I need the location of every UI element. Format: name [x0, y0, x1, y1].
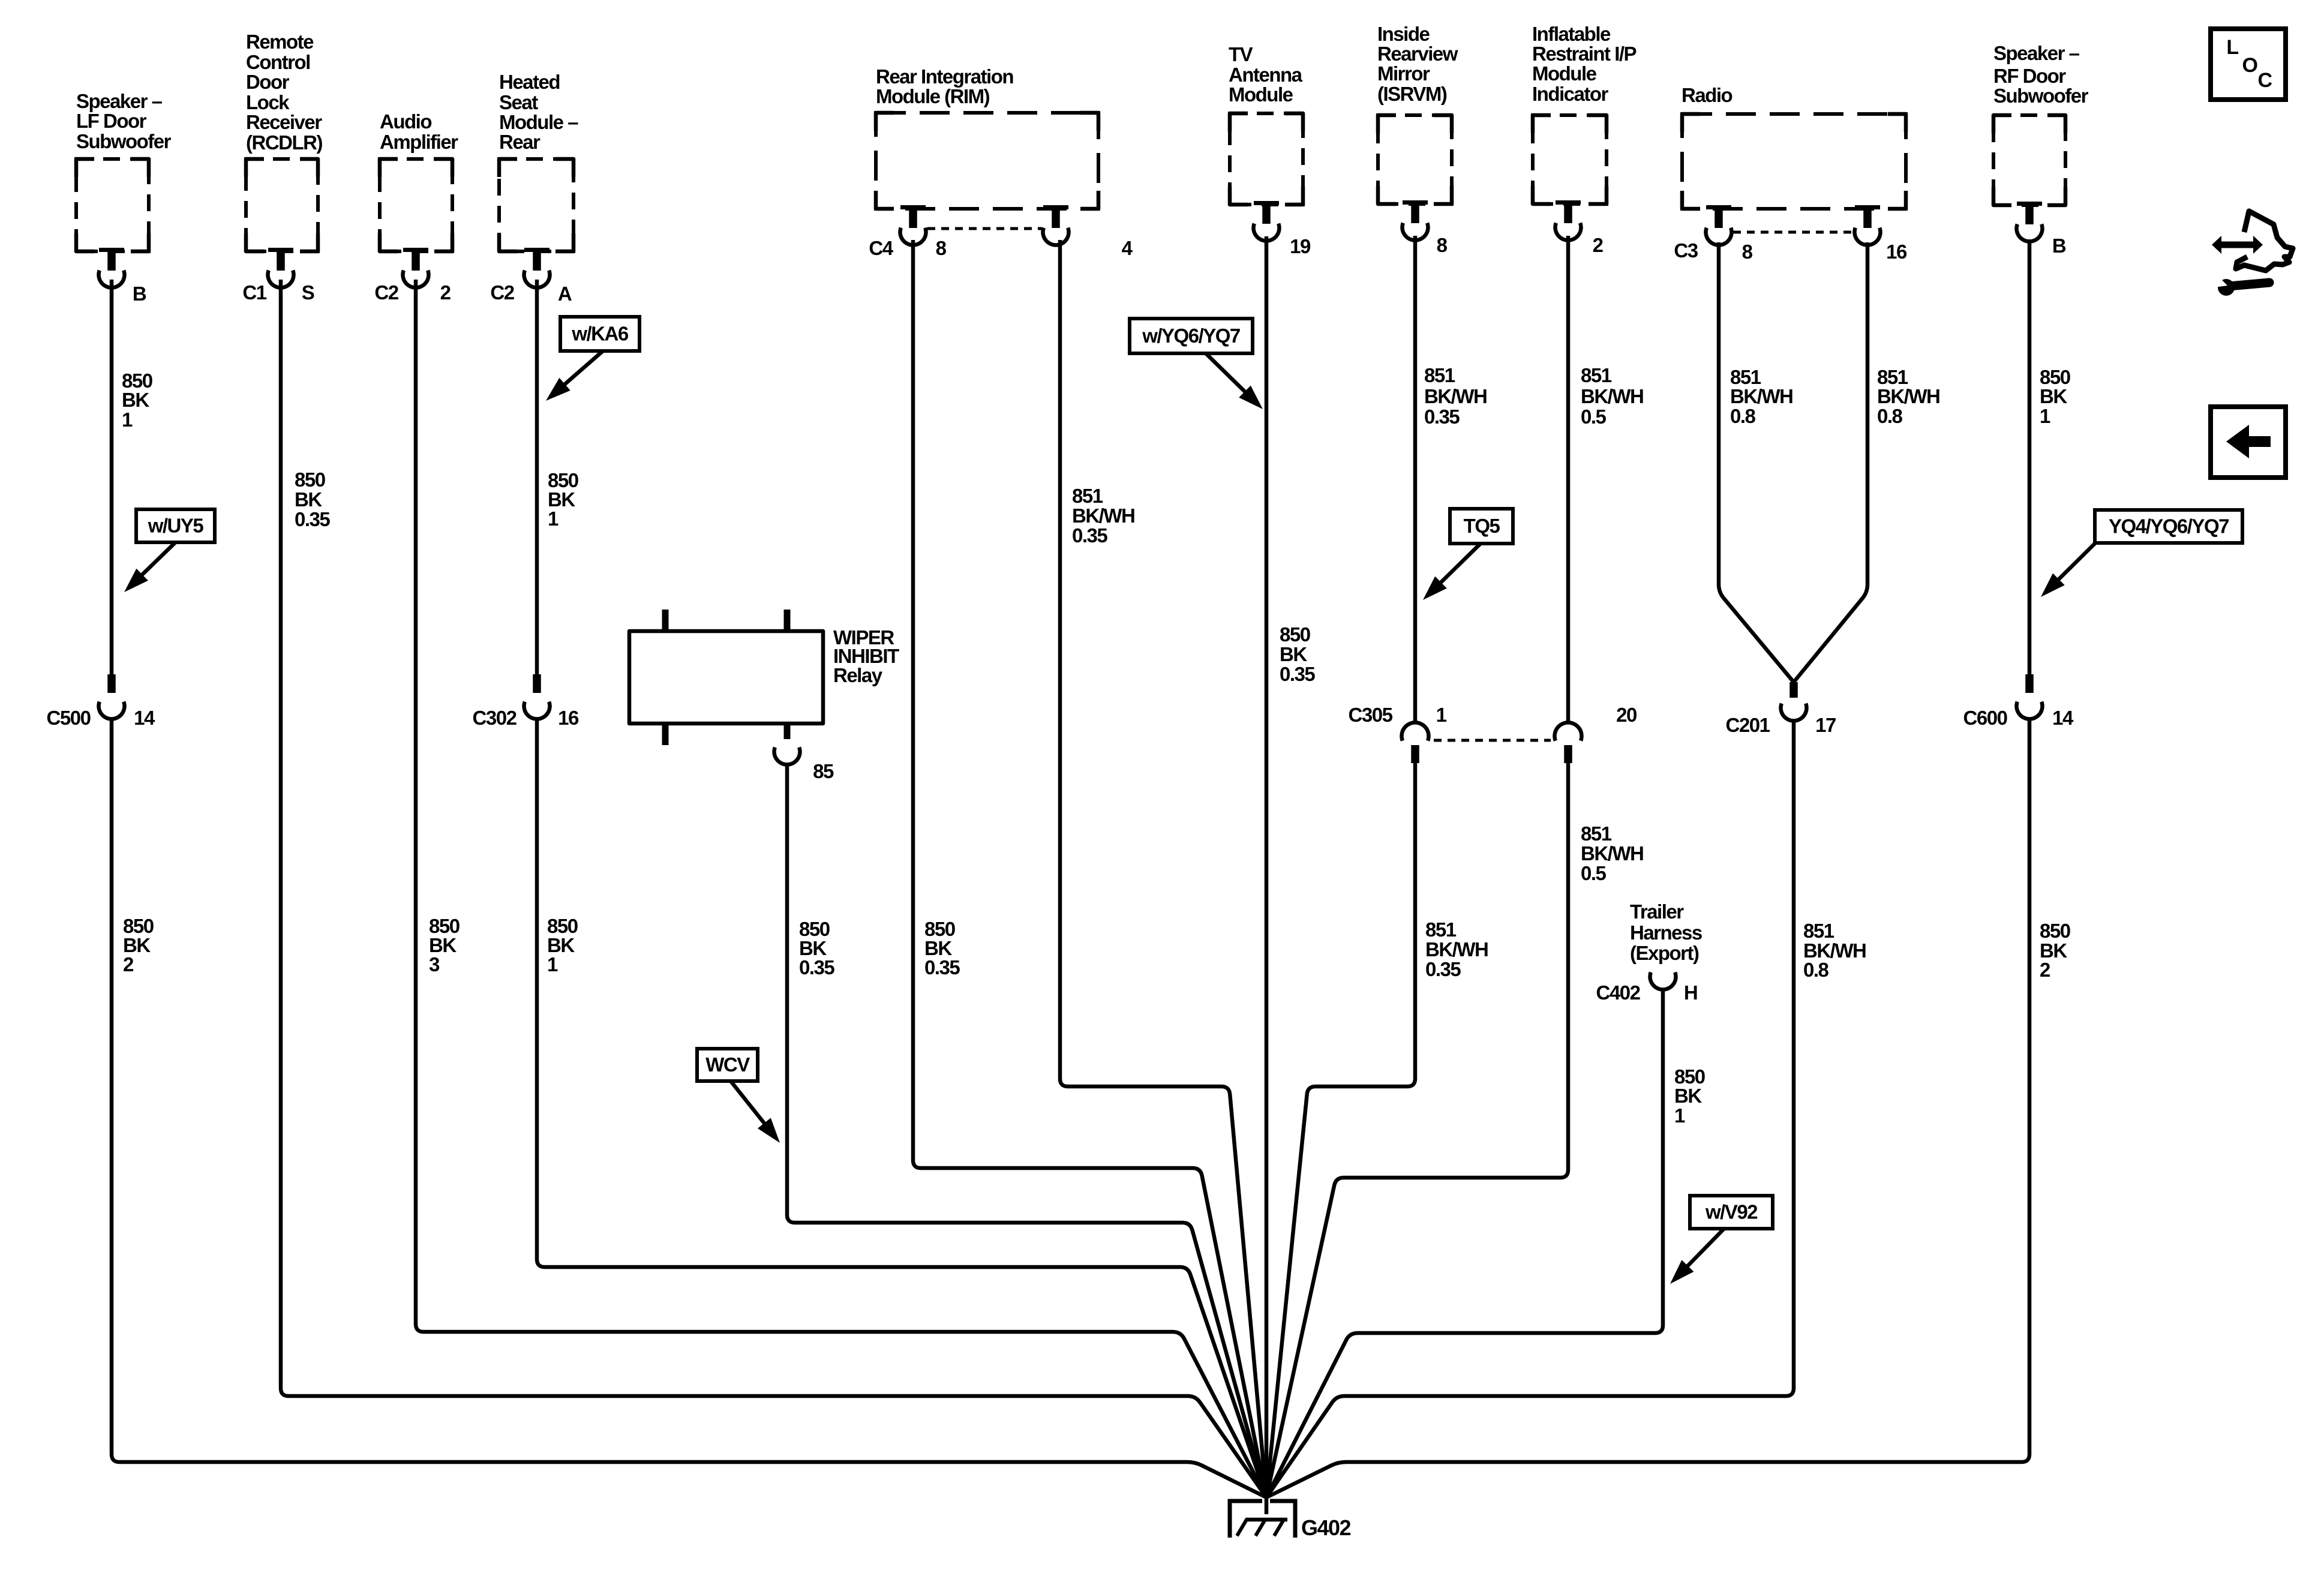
- svg-text:3: 3: [429, 953, 440, 975]
- svg-text:851: 851: [1072, 485, 1103, 507]
- svg-text:Subwoofer: Subwoofer: [1993, 85, 2089, 107]
- svg-text:WCV: WCV: [705, 1053, 750, 1076]
- svg-text:Module: Module: [1229, 83, 1293, 106]
- svg-text:1: 1: [1674, 1104, 1685, 1127]
- svg-text:Control: Control: [246, 51, 310, 73]
- svg-text:BK/WH: BK/WH: [1424, 385, 1487, 407]
- svg-text:B: B: [2052, 235, 2066, 257]
- svg-text:850: 850: [1280, 623, 1310, 646]
- svg-text:0.8: 0.8: [1877, 405, 1903, 427]
- svg-text:Amplifier: Amplifier: [380, 131, 458, 153]
- svg-text:1: 1: [547, 953, 558, 975]
- svg-text:0.35: 0.35: [1280, 663, 1315, 685]
- svg-text:A: A: [558, 283, 572, 305]
- svg-text:C402: C402: [1596, 981, 1641, 1004]
- svg-text:C2: C2: [374, 281, 398, 304]
- svg-text:BK: BK: [2040, 385, 2067, 407]
- svg-text:Inflatable: Inflatable: [1532, 23, 1611, 45]
- svg-text:Harness: Harness: [1630, 921, 1702, 944]
- svg-text:0.35: 0.35: [799, 956, 834, 978]
- svg-text:0.35: 0.35: [295, 508, 330, 530]
- svg-text:BK/WH: BK/WH: [1730, 385, 1792, 407]
- svg-text:L: L: [2226, 36, 2238, 59]
- svg-text:0.35: 0.35: [1425, 958, 1461, 980]
- svg-text:BK: BK: [295, 488, 322, 511]
- svg-text:BK: BK: [1280, 643, 1307, 665]
- svg-text:Rear: Rear: [499, 131, 541, 153]
- svg-text:(ISRVM): (ISRVM): [1377, 83, 1447, 105]
- svg-text:RF Door: RF Door: [1993, 65, 2066, 87]
- svg-text:H: H: [1684, 981, 1697, 1004]
- svg-text:8: 8: [1437, 234, 1448, 256]
- svg-text:BK/WH: BK/WH: [1072, 505, 1134, 527]
- svg-text:Inside: Inside: [1377, 23, 1430, 45]
- svg-text:Heated: Heated: [499, 71, 560, 93]
- svg-text:Remote: Remote: [246, 31, 314, 53]
- svg-text:0.5: 0.5: [1581, 406, 1607, 428]
- svg-text:0.8: 0.8: [1730, 405, 1756, 427]
- svg-text:1: 1: [122, 409, 133, 431]
- svg-text:850: 850: [2040, 920, 2070, 942]
- svg-text:BK: BK: [1674, 1085, 1702, 1107]
- svg-text:851: 851: [1425, 918, 1457, 941]
- svg-text:Indicator: Indicator: [1532, 83, 1609, 105]
- svg-text:851: 851: [1581, 822, 1612, 845]
- svg-text:C302: C302: [473, 707, 517, 729]
- svg-text:Module: Module: [1532, 62, 1597, 85]
- svg-text:Speaker –: Speaker –: [1993, 42, 2080, 64]
- svg-text:B: B: [133, 283, 146, 305]
- svg-text:20: 20: [1616, 704, 1637, 726]
- svg-text:1: 1: [1436, 704, 1447, 726]
- svg-text:Module (RIM): Module (RIM): [876, 85, 990, 107]
- svg-text:85: 85: [813, 760, 834, 782]
- svg-text:Module –: Module –: [499, 111, 578, 133]
- svg-text:Trailer: Trailer: [1630, 900, 1684, 923]
- svg-text:Relay: Relay: [833, 664, 883, 686]
- svg-text:16: 16: [1886, 241, 1907, 263]
- svg-text:0.5: 0.5: [1581, 862, 1607, 884]
- svg-text:BK: BK: [122, 389, 149, 411]
- svg-text:Subwoofer: Subwoofer: [76, 130, 172, 152]
- svg-text:Mirror: Mirror: [1377, 62, 1430, 85]
- svg-text:17: 17: [1815, 714, 1836, 736]
- svg-text:C1: C1: [242, 281, 266, 304]
- svg-text:G402: G402: [1301, 1515, 1351, 1540]
- svg-text:Audio: Audio: [380, 110, 431, 133]
- svg-text:1: 1: [2040, 405, 2050, 427]
- svg-text:w/YQ6/YQ7: w/YQ6/YQ7: [1142, 325, 1240, 347]
- svg-text:2: 2: [2040, 959, 2050, 981]
- svg-text:0.35: 0.35: [1424, 406, 1460, 428]
- svg-text:w/UY5: w/UY5: [148, 515, 204, 537]
- svg-text:C600: C600: [1963, 707, 2007, 729]
- svg-text:2: 2: [1593, 234, 1604, 256]
- svg-text:C3: C3: [1674, 239, 1698, 262]
- svg-text:O: O: [2242, 54, 2258, 77]
- svg-text:8: 8: [936, 237, 947, 259]
- svg-text:BK/WH: BK/WH: [1877, 385, 1939, 407]
- svg-text:Restraint I/P: Restraint I/P: [1532, 43, 1637, 65]
- svg-text:850: 850: [295, 469, 325, 491]
- svg-text:C2: C2: [490, 281, 514, 304]
- svg-text:LF Door: LF Door: [76, 110, 147, 132]
- svg-text:Radio: Radio: [1682, 84, 1733, 106]
- svg-text:BK/WH: BK/WH: [1581, 385, 1643, 407]
- svg-text:4: 4: [1122, 237, 1133, 259]
- svg-text:C305: C305: [1349, 704, 1393, 726]
- svg-text:0.8: 0.8: [1803, 959, 1829, 981]
- svg-text:S: S: [302, 281, 314, 304]
- svg-text:C201: C201: [1726, 714, 1770, 736]
- svg-text:TV: TV: [1229, 43, 1253, 65]
- svg-text:BK/WH: BK/WH: [1581, 842, 1643, 864]
- svg-text:19: 19: [1290, 235, 1311, 257]
- svg-text:Receiver: Receiver: [246, 111, 322, 133]
- svg-text:BK/WH: BK/WH: [1425, 938, 1488, 960]
- svg-text:C500: C500: [47, 707, 91, 729]
- svg-text:Speaker –: Speaker –: [76, 90, 163, 112]
- svg-text:Lock: Lock: [246, 91, 290, 113]
- svg-text:0.35: 0.35: [1072, 524, 1107, 547]
- svg-text:w/KA6: w/KA6: [571, 323, 629, 345]
- svg-text:851: 851: [1424, 364, 1455, 386]
- svg-text:Seat: Seat: [499, 91, 538, 113]
- svg-text:Antenna: Antenna: [1229, 64, 1303, 86]
- svg-text:14: 14: [2052, 707, 2074, 729]
- svg-text:851: 851: [1803, 920, 1834, 942]
- svg-text:16: 16: [558, 707, 579, 729]
- svg-text:C: C: [2257, 69, 2272, 92]
- svg-text:2: 2: [440, 281, 451, 304]
- svg-text:YQ4/YQ6/YQ7: YQ4/YQ6/YQ7: [2109, 515, 2229, 538]
- svg-text:2: 2: [123, 953, 134, 975]
- svg-text:851: 851: [1581, 364, 1612, 386]
- svg-text:0.35: 0.35: [924, 956, 960, 978]
- svg-text:Rear Integration: Rear Integration: [876, 65, 1013, 88]
- svg-text:8: 8: [1742, 241, 1753, 263]
- svg-text:14: 14: [134, 707, 155, 729]
- svg-text:(RCDLR): (RCDLR): [246, 131, 322, 154]
- svg-text:C4: C4: [869, 237, 893, 259]
- svg-text:1: 1: [548, 508, 559, 530]
- svg-text:(Export): (Export): [1630, 942, 1699, 964]
- svg-text:Rearview: Rearview: [1377, 43, 1458, 65]
- svg-text:TQ5: TQ5: [1464, 515, 1500, 537]
- svg-text:Door: Door: [246, 71, 290, 93]
- svg-text:w/V92: w/V92: [1705, 1201, 1758, 1223]
